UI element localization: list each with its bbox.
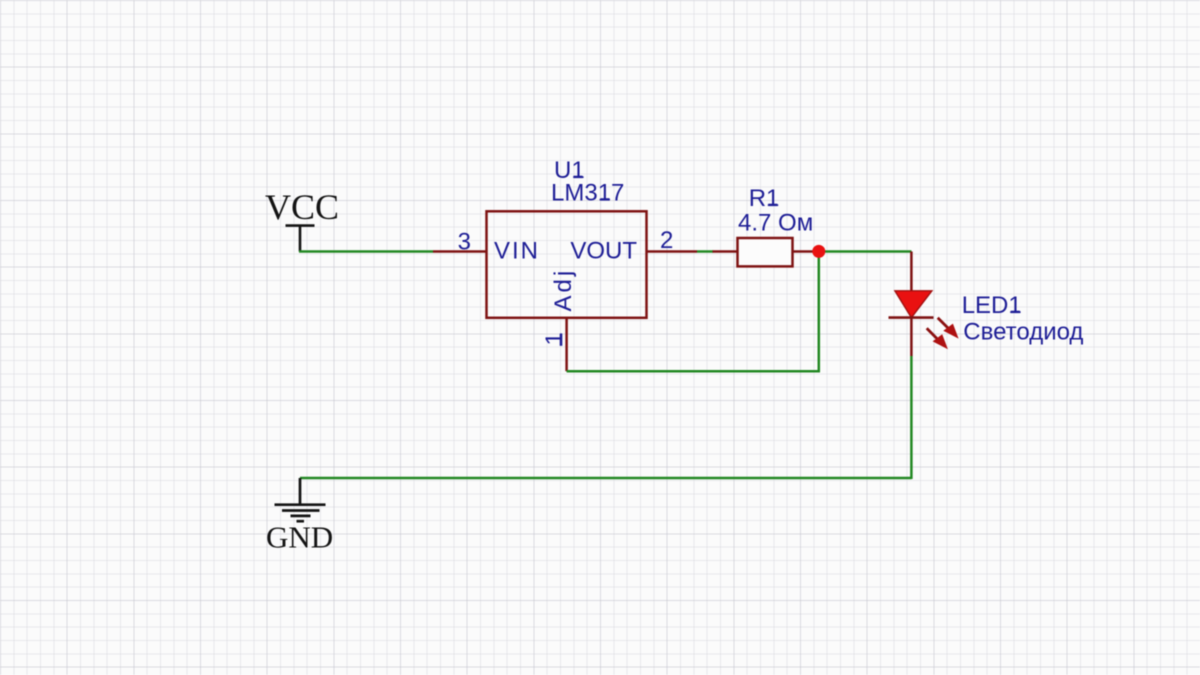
U1 pin 2 stub [647, 250, 698, 253]
LED1 triangle [895, 291, 932, 318]
wire junction to LED [818, 250, 912, 253]
LED1 cathode stub [910, 318, 913, 356]
svg-text:R1: R1 [749, 185, 780, 212]
regulator U1 body [487, 211, 647, 317]
svg-text:Светодиод: Светодиод [963, 319, 1083, 346]
resistor R1 right lead [793, 250, 815, 253]
svg-text:VIN: VIN [494, 237, 540, 264]
svg-text:4.7 Ом: 4.7 Ом [738, 210, 813, 237]
label LED1 [962, 292, 1022, 319]
label U1 [554, 157, 585, 184]
LED1 emission arrow upper [938, 318, 959, 339]
svg-text:2: 2 [660, 227, 673, 254]
svg-text:VOUT: VOUT [570, 237, 637, 264]
wire U1 pin 2 to R1 [697, 250, 713, 253]
op-amp U1 pin 3 stub [433, 250, 487, 253]
ground [275, 478, 326, 521]
svg-text:LED1: LED1 [962, 292, 1022, 319]
LED1 cathode bar [889, 316, 934, 319]
resistor R1 left lead [713, 250, 738, 253]
pin number 1 [541, 332, 568, 346]
svg-text:LM317: LM317 [551, 180, 624, 207]
LED1 anode stub [910, 252, 913, 292]
svg-text:1: 1 [541, 332, 568, 345]
wire junction down to Adj net [818, 252, 821, 372]
wire VCC to U1 pin 3 [299, 250, 433, 253]
resistor R1 body [738, 238, 793, 266]
U1 pin 1 stub [565, 318, 568, 371]
power symbol VCC [286, 226, 315, 252]
LED1 emission arrow lower [927, 328, 948, 349]
svg-text:Adj: Adj [550, 268, 577, 312]
wire LED1 to ground net [910, 356, 913, 479]
junction dot [812, 245, 825, 258]
value label LM317 [551, 180, 624, 207]
wire Adj to junction [567, 370, 820, 373]
label R1 [749, 185, 780, 212]
wire ground return [300, 477, 911, 480]
svg-text:VCC: VCC [265, 187, 339, 227]
svg-text:3: 3 [458, 229, 471, 256]
svg-text:GND: GND [266, 520, 333, 555]
